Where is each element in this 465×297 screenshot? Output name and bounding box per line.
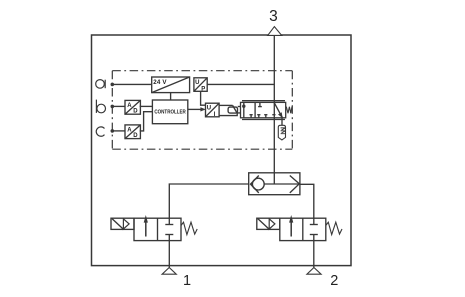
solenoid Y2 [257, 218, 280, 229]
control unit dash-dot box [112, 71, 292, 150]
svg-text:3: 3 [269, 8, 278, 25]
outer enclosure box [92, 35, 352, 266]
wire shuttle right input [300, 184, 314, 218]
wire U/P to U/I [201, 91, 206, 105]
24V supply U1 [152, 77, 190, 93]
wire valve to silencer [281, 117, 283, 126]
shuttle valve V2 [249, 173, 300, 195]
wire shuttle left input [169, 184, 248, 218]
svg-text:U: U [207, 106, 211, 112]
pilot stage symbol [228, 105, 237, 113]
svg-text:2: 2 [330, 273, 338, 289]
2/2 valve V3 [134, 215, 181, 241]
svg-text:D: D [133, 133, 138, 139]
spring of valve V4 [326, 222, 342, 234]
A/D converter U3 [125, 100, 140, 114]
2/2 valve V4 [280, 215, 326, 241]
wire valve V3 to port 1 [168, 241, 170, 268]
wire A/D c to controller [140, 112, 153, 131]
wire b [112, 105, 125, 107]
wire A/D b to controller [140, 105, 153, 107]
svg-text:U: U [195, 80, 199, 86]
proportional valve V1 [241, 101, 286, 120]
port 3 arrow [268, 27, 282, 36]
svg-text:A: A [127, 103, 132, 109]
node b terminal dot [111, 105, 115, 109]
port 1 symbol [162, 268, 176, 275]
node a label [96, 80, 106, 89]
spring of proportional valve [286, 107, 292, 114]
svg-text:1: 1 [183, 273, 191, 289]
wire port 3 vertical [273, 35, 275, 184]
svg-text:D: D [133, 108, 138, 114]
svg-text:CONTROLLER: CONTROLLER [154, 110, 186, 116]
svg-text:A: A [127, 127, 132, 133]
svg-text:24 V: 24 V [153, 79, 167, 86]
wire U/P to port3 line [207, 83, 274, 85]
wire 24V to controller [170, 93, 172, 100]
port 2 symbol [307, 268, 321, 275]
wire U/I lower to valve [219, 113, 240, 116]
wire a [112, 83, 151, 85]
controller U2 [152, 100, 187, 124]
A/D converter U4 [125, 125, 140, 139]
node c terminal dot [111, 129, 115, 133]
U/I converter U6 [206, 103, 220, 118]
silencer [278, 125, 285, 140]
svg-text:P: P [201, 86, 205, 92]
solenoid Y1 [111, 218, 134, 229]
node a terminal dot [111, 83, 115, 87]
node c label [96, 127, 104, 136]
wire valve V4 to port 2 [313, 241, 315, 268]
node b label [96, 100, 105, 113]
valve pilot stub [238, 106, 241, 108]
wire U/I to pilot [219, 104, 233, 106]
U/P transducer U5 [194, 78, 207, 93]
wire c [112, 130, 125, 132]
wire controller to U/I with arrow [188, 108, 202, 110]
spring of valve V3 [181, 222, 197, 234]
